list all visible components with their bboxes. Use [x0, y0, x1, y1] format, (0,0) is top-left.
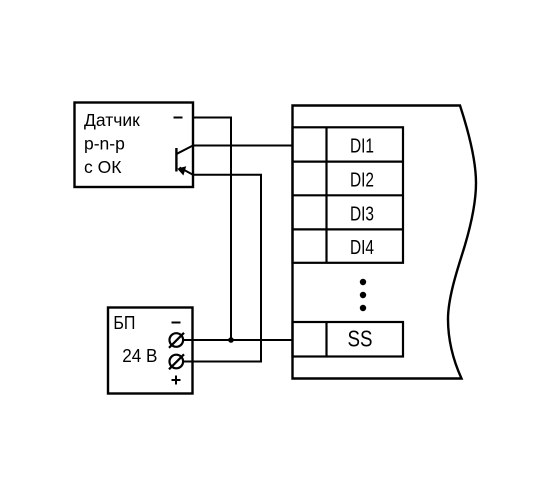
sensor minus terminal label — [174, 117, 183, 119]
ellipsis dots — [360, 279, 366, 311]
svg-text:DI3: DI3 — [350, 203, 374, 225]
БП minus label — [172, 322, 181, 324]
svg-text:24 В: 24 В — [122, 345, 157, 366]
svg-text:БП: БП — [113, 312, 135, 333]
svg-text:Датчик: Датчик — [84, 110, 140, 130]
transistor Q1 collector line — [177, 146, 193, 154]
terminal screw -24V (upper) — [169, 333, 184, 348]
transistor Q1 emitter line — [180, 168, 194, 175]
svg-text:с ОК: с ОК — [84, 157, 122, 177]
terminal block row dividers — [293, 162, 404, 230]
svg-text:SS: SS — [348, 326, 373, 352]
wire: sensor minus to junction A — [193, 118, 231, 341]
БП plus label — [172, 376, 181, 385]
SS strip divider — [325, 322, 327, 357]
terminal SS row — [293, 322, 404, 357]
svg-text:DI1: DI1 — [350, 135, 374, 157]
svg-text:p-n-p: p-n-p — [84, 134, 125, 154]
terminal block DI1-DI4 outer — [293, 127, 404, 262]
device box with torn right edge — [293, 106, 477, 379]
wire: collector to DI1 — [193, 145, 293, 147]
wire: emitter to +24V terminal — [184, 175, 262, 362]
terminal block strip divider — [325, 127, 327, 262]
terminal screw +24V (lower) — [169, 354, 184, 369]
junction A dot — [228, 337, 234, 343]
wire: -24V terminal to SS — [184, 339, 293, 341]
transistor Q1 emitter arrowhead — [177, 166, 186, 175]
sensor box (Датчик p-n-p с ОК) — [75, 103, 194, 188]
svg-text:DI2: DI2 — [350, 169, 374, 191]
svg-text:DI4: DI4 — [350, 237, 374, 259]
power supply box БП 24 В — [108, 308, 193, 394]
transistor Q1 base bar — [175, 148, 177, 172]
